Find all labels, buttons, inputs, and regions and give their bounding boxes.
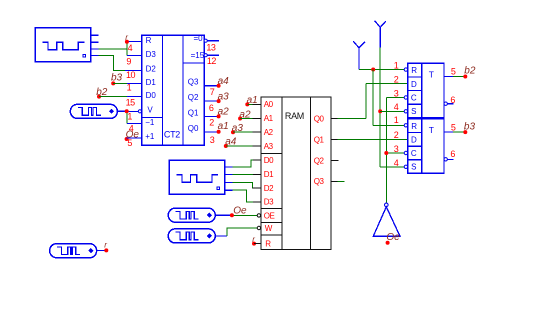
svg-text:b3: b3 bbox=[464, 121, 476, 132]
svg-text:D2: D2 bbox=[146, 65, 157, 74]
svg-text:7: 7 bbox=[210, 87, 215, 97]
node r at RAM R pin bbox=[252, 235, 261, 246]
svg-text:R: R bbox=[146, 36, 152, 45]
wire a3 to RAM A2 bbox=[233, 131, 261, 133]
svg-text:C: C bbox=[411, 149, 417, 158]
svg-text:OE: OE bbox=[264, 211, 275, 220]
node Oe on OE wire bbox=[230, 206, 247, 218]
FF1 output 5 bbox=[444, 67, 464, 77]
svg-text:D0: D0 bbox=[146, 91, 157, 100]
svg-text:+1: +1 bbox=[145, 132, 155, 141]
svg-text:a4: a4 bbox=[218, 76, 230, 87]
svg-text:6: 6 bbox=[209, 103, 214, 113]
node b2 at CT2 D0 bbox=[96, 87, 108, 99]
svg-text:D3: D3 bbox=[264, 198, 274, 207]
pin RAM Q3 stub bbox=[331, 180, 345, 182]
svg-text:2: 2 bbox=[209, 118, 214, 128]
node a4 at CT2 Q3 bbox=[217, 76, 230, 88]
svg-text:3: 3 bbox=[394, 88, 399, 98]
counter CT2 bbox=[142, 34, 205, 145]
svg-text:r: r bbox=[104, 241, 107, 250]
antenna AN2 bbox=[375, 21, 386, 48]
pin Q2 stub + number 6 bbox=[204, 101, 217, 113]
wire G2 to CT2 V bbox=[126, 110, 142, 113]
node r at G6 output bbox=[104, 241, 108, 253]
wire G4 to RAM OE bbox=[225, 214, 261, 217]
wire b3 to CT2 D1 bbox=[113, 82, 142, 84]
node a1 at RAM A0 bbox=[245, 95, 257, 107]
svg-text:D3: D3 bbox=[146, 50, 157, 59]
wire G1 pin4 to CT2 D2 bbox=[99, 56, 142, 71]
pin Q3 stub + number 7 bbox=[204, 86, 217, 97]
inverter U4 bbox=[373, 203, 400, 236]
svg-text:4: 4 bbox=[394, 102, 399, 112]
svg-text:6: 6 bbox=[450, 95, 455, 105]
pin Q1 stub + number 2 bbox=[204, 116, 217, 127]
node a3 at CT2 Q2 bbox=[217, 91, 230, 103]
node b2 at FF1 output bbox=[463, 66, 476, 79]
wire RAM Q1 to FF2 D bbox=[331, 138, 408, 140]
wire G3 pin4 to RAM D3 bbox=[233, 190, 262, 202]
svg-text:W: W bbox=[265, 224, 273, 233]
svg-text:4: 4 bbox=[394, 158, 399, 168]
node junction AN1/FF2R bbox=[371, 68, 375, 72]
svg-text:Q0: Q0 bbox=[314, 114, 325, 123]
wire +1 stub bbox=[127, 137, 142, 139]
svg-text:Oe: Oe bbox=[233, 206, 247, 217]
pin =15 (12) bbox=[204, 54, 219, 66]
node a4 at RAM A3 bbox=[224, 136, 237, 148]
svg-text:A2: A2 bbox=[264, 128, 274, 137]
node V junction bbox=[125, 109, 129, 113]
svg-text:A1: A1 bbox=[264, 114, 274, 123]
FF2 R bubble bbox=[404, 124, 407, 127]
node a3 at RAM A2 bbox=[231, 123, 243, 134]
svg-text:Q1: Q1 bbox=[314, 136, 325, 145]
svg-text:10: 10 bbox=[126, 70, 136, 80]
svg-text:RAM: RAM bbox=[285, 111, 304, 121]
svg-text:D: D bbox=[411, 80, 417, 89]
wire AN2 to FF S pins bbox=[380, 48, 405, 167]
svg-text:R: R bbox=[411, 122, 417, 131]
svg-text:13: 13 bbox=[206, 42, 216, 52]
svg-text:−1: −1 bbox=[145, 118, 155, 127]
svg-text:Q0: Q0 bbox=[188, 124, 199, 133]
svg-text:r: r bbox=[125, 33, 128, 42]
node a2 at CT2 Q1 bbox=[217, 107, 230, 119]
svg-text:D0: D0 bbox=[264, 156, 274, 165]
svg-text:b2: b2 bbox=[464, 66, 476, 77]
FF1 output 6 bbox=[444, 95, 455, 105]
node a2 at RAM A1 bbox=[238, 109, 251, 120]
svg-text:=15: =15 bbox=[191, 51, 205, 60]
pulse generator G3 (data) bbox=[169, 160, 233, 194]
node Oe at inverter input bbox=[386, 232, 401, 245]
svg-text:12: 12 bbox=[207, 56, 217, 66]
svg-text:5: 5 bbox=[451, 67, 456, 77]
svg-text:4: 4 bbox=[128, 43, 133, 53]
clock generator G6 (net r) bbox=[50, 244, 105, 258]
wire a1 to RAM A0 bbox=[247, 103, 261, 105]
flip-flop FF1 (T) bbox=[408, 63, 444, 117]
svg-text:3: 3 bbox=[210, 135, 215, 145]
node junction inverter/FF2C bbox=[384, 151, 388, 155]
svg-text:A0: A0 bbox=[264, 100, 274, 109]
node junction AN2/FF1S bbox=[378, 109, 382, 113]
node b3 at CT2 D1 bbox=[111, 73, 123, 86]
wire junction to FF1 S bbox=[380, 110, 405, 112]
wire G3 pin2 to RAM D1 bbox=[233, 173, 262, 175]
clock generator G2 (V input) bbox=[70, 104, 125, 118]
pin =0 (13) bbox=[204, 39, 219, 52]
FF1 S bubble bbox=[404, 110, 407, 113]
svg-text:Q2: Q2 bbox=[188, 93, 199, 102]
pulse generator G1 bbox=[35, 28, 99, 62]
svg-text:Q2: Q2 bbox=[314, 157, 325, 166]
wire AN1 to FF1 R bbox=[359, 69, 405, 71]
wire G1 pin3 to CT2 R/D3 bbox=[99, 42, 142, 56]
RAM U1 bbox=[261, 97, 331, 250]
FF1 C bubble bbox=[404, 96, 407, 99]
svg-text:D: D bbox=[411, 135, 417, 144]
FF2 output 5 bbox=[444, 122, 464, 132]
svg-text:=0: =0 bbox=[194, 34, 204, 43]
svg-text:A3: A3 bbox=[264, 142, 274, 151]
node a1 at CT2 Q0 bbox=[217, 121, 229, 134]
wire inverter out to FF C pins bbox=[386, 98, 405, 204]
wire a2 to RAM A1 bbox=[240, 117, 261, 119]
svg-text:R: R bbox=[411, 66, 417, 75]
clock generator G5 (W) bbox=[168, 229, 227, 243]
flip-flop FF2 (T) bbox=[408, 119, 444, 173]
svg-text:2: 2 bbox=[394, 75, 399, 85]
svg-text:6: 6 bbox=[450, 149, 455, 159]
wire a4 to RAM A3 bbox=[226, 145, 261, 147]
node b3 at FF2 output bbox=[463, 121, 475, 134]
wire G3 pin1 to RAM D0 bbox=[233, 160, 262, 167]
svg-text:1: 1 bbox=[127, 112, 132, 122]
wire RAM Q0 to FF1 D bbox=[331, 84, 408, 119]
FF2 output 6 bbox=[444, 149, 455, 161]
svg-text:C: C bbox=[411, 93, 417, 102]
svg-text:Q3: Q3 bbox=[188, 78, 199, 87]
wire b2 to CT2 D0 bbox=[99, 96, 142, 98]
svg-text:Q3: Q3 bbox=[314, 177, 325, 186]
svg-text:T: T bbox=[429, 70, 434, 80]
wire junction to FF2 R bbox=[373, 70, 405, 126]
svg-text:a3: a3 bbox=[218, 91, 230, 102]
svg-text:1: 1 bbox=[394, 115, 399, 125]
antenna AN1 bbox=[353, 41, 365, 69]
pin Q0 stub + number 3 bbox=[204, 132, 217, 145]
svg-text:9: 9 bbox=[126, 57, 131, 67]
svg-text:D1: D1 bbox=[146, 78, 157, 87]
wire V to -1 bbox=[127, 113, 142, 123]
svg-text:2: 2 bbox=[394, 130, 399, 140]
FF2 C bubble bbox=[404, 151, 407, 154]
FF1 R bubble bbox=[404, 68, 407, 71]
svg-text:D1: D1 bbox=[264, 170, 274, 179]
svg-text:CT2: CT2 bbox=[164, 130, 180, 140]
svg-text:1: 1 bbox=[394, 61, 399, 71]
node r at CT2 R pin bbox=[125, 33, 129, 44]
svg-text:15: 15 bbox=[126, 98, 136, 108]
pin RAM Q2 stub bbox=[331, 160, 339, 162]
svg-text:1: 1 bbox=[127, 83, 132, 93]
svg-text:3: 3 bbox=[394, 144, 399, 154]
FF2 S bubble bbox=[404, 165, 407, 168]
svg-text:V: V bbox=[147, 106, 153, 115]
svg-text:S: S bbox=[411, 163, 416, 172]
wire G5 to RAM W bbox=[227, 226, 261, 236]
svg-text:a1: a1 bbox=[218, 121, 229, 132]
svg-text:S: S bbox=[411, 107, 416, 116]
svg-text:Q1: Q1 bbox=[188, 108, 199, 117]
svg-text:D2: D2 bbox=[264, 184, 274, 193]
node Oe at CT2 +1 bbox=[125, 129, 140, 141]
clock generator G4 (OE) bbox=[168, 208, 225, 222]
svg-text:T: T bbox=[429, 125, 434, 135]
svg-text:5: 5 bbox=[451, 122, 456, 132]
svg-text:5: 5 bbox=[127, 138, 132, 148]
svg-text:R: R bbox=[265, 239, 271, 248]
svg-text:a2: a2 bbox=[218, 107, 230, 118]
wire G3 pin3 to RAM D2 bbox=[233, 183, 262, 188]
